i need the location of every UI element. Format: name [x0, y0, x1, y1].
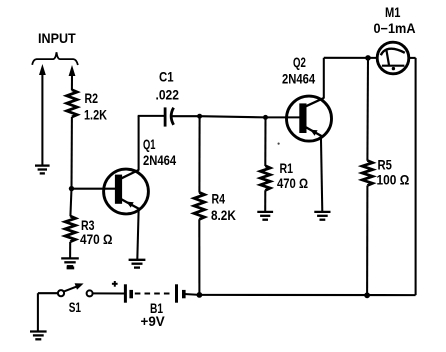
wire input right lead — [71, 75, 73, 90]
label Q2 part 2N464 — [282, 72, 315, 87]
svg-text:1.2K: 1.2K — [84, 108, 107, 123]
svg-text:470 Ω: 470 Ω — [80, 233, 112, 248]
ground switch — [30, 332, 47, 340]
svg-text:Q1: Q1 — [143, 139, 156, 153]
svg-text:R2: R2 — [85, 91, 99, 107]
wire node A to R3 — [70, 189, 71, 217]
label S1 — [69, 300, 82, 316]
label R2 value 1.2K — [84, 108, 107, 123]
svg-text:2N464: 2N464 — [143, 153, 176, 168]
svg-text:.022: .022 — [156, 87, 179, 103]
wire meter right — [409, 57, 416, 59]
wire C1 to node B — [172, 115, 199, 117]
node F junction dot — [364, 292, 370, 298]
wire switch ground drop — [37, 293, 39, 331]
node B junction dot — [197, 114, 202, 119]
label Q2 — [293, 55, 306, 70]
wire R2 to node A — [70, 117, 72, 189]
label R3 — [81, 218, 95, 234]
wire R5 top — [366, 58, 369, 161]
wire Q2 collector to meter — [324, 57, 378, 59]
wire Q1 collector up — [138, 116, 140, 171]
wire Q2 emitter down — [321, 135, 322, 212]
input right arrowhead — [69, 65, 76, 76]
svg-text:470 Ω: 470 Ω — [277, 176, 308, 191]
svg-text:C1: C1 — [159, 70, 174, 85]
ground R3 — [61, 258, 79, 266]
label Q1 part 2N464 — [143, 153, 176, 168]
label M1 range 0-1mA — [374, 21, 417, 36]
label R4 — [212, 191, 226, 207]
label R1 — [280, 161, 294, 177]
label INPUT — [38, 30, 76, 45]
wire Q1 emitter down — [137, 208, 138, 260]
label C1 value .022 — [156, 87, 179, 103]
wire switch to battery — [93, 292, 125, 294]
svg-text:100 Ω: 100 Ω — [377, 173, 410, 188]
wire input left lead — [41, 74, 43, 166]
wire R1 bottom — [264, 190, 266, 212]
resistor R1 — [260, 166, 270, 191]
wire Q2 collector up — [323, 58, 325, 99]
svg-text:8.2K: 8.2K — [211, 208, 236, 223]
transistor Q1 — [104, 169, 149, 214]
svg-text:+9V: +9V — [141, 314, 165, 329]
label R5 value 100Ω — [377, 173, 410, 188]
node D junction dot — [365, 55, 371, 61]
label C1 — [159, 70, 174, 85]
label M1 — [385, 5, 401, 20]
resistor R3 — [65, 216, 75, 242]
label R2 — [85, 91, 99, 107]
meter M1 — [377, 42, 409, 74]
wire R4 top — [198, 116, 200, 192]
label R5 — [378, 158, 392, 173]
wire R1 top — [264, 117, 266, 166]
wire node B to node C — [200, 116, 266, 117]
wire R3 to ground — [69, 242, 71, 259]
svg-text:R1: R1 — [280, 161, 294, 177]
node E junction dot — [197, 292, 203, 298]
transistor Q2 — [287, 96, 332, 141]
wire Q1 base lead — [72, 188, 116, 190]
wire Q2 base lead — [266, 116, 301, 118]
label R3 value 470Ω — [80, 233, 112, 248]
resistor R2 — [67, 90, 77, 117]
capacitor C1 — [165, 107, 174, 126]
node A junction dot — [69, 186, 74, 191]
speck artifact — [278, 143, 280, 145]
switch S1 — [58, 283, 93, 296]
input left arrowhead — [39, 64, 46, 75]
svg-text:2N464: 2N464 — [282, 72, 315, 87]
label R1 value 470Ω — [277, 176, 308, 191]
resistor R4 — [194, 192, 204, 219]
wire R4 bottom — [198, 219, 200, 295]
ground input left — [35, 166, 50, 174]
input brace — [32, 52, 78, 65]
label B1 value +9V — [141, 314, 165, 329]
battery B1 — [125, 284, 183, 302]
wire bottom rail — [199, 294, 415, 296]
svg-text:INPUT: INPUT — [38, 30, 76, 45]
ground R1 — [257, 212, 273, 220]
ground Q1 emitter — [129, 260, 146, 268]
svg-text:R5: R5 — [378, 158, 392, 173]
svg-text:Q2: Q2 — [293, 55, 306, 70]
wire battery to node E — [184, 293, 199, 296]
minus mark — [67, 266, 75, 269]
svg-text:R4: R4 — [212, 191, 226, 207]
node C junction dot — [263, 115, 268, 120]
ground Q2 emitter — [314, 212, 330, 220]
label R4 value 8.2K — [211, 208, 236, 223]
wire right vertical — [415, 58, 417, 295]
svg-text:0−1mA: 0−1mA — [374, 21, 417, 36]
wire R5 bottom — [366, 186, 368, 296]
svg-text:M1: M1 — [385, 5, 401, 20]
svg-text:S1: S1 — [69, 300, 82, 316]
battery plus sign — [112, 281, 118, 287]
label Q1 — [143, 139, 156, 153]
wire collector to C1 — [138, 115, 164, 117]
label B1 — [150, 301, 163, 317]
resistor R5 — [362, 161, 372, 186]
svg-text:R3: R3 — [81, 218, 95, 234]
wire switch left — [38, 292, 58, 294]
